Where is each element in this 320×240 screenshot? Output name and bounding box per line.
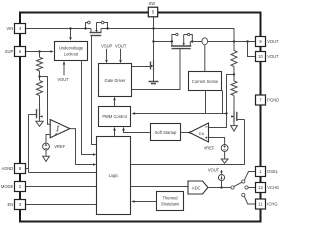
ground symbol below VREF (left) xyxy=(43,156,50,161)
wire R4 to transistor Q2 drain xyxy=(233,96,235,112)
wire SW node rail to sense FET xyxy=(154,41,172,43)
resistor R3 (VOUT divider top) xyxy=(231,51,237,67)
svg-text:VCHG: VCHG xyxy=(267,185,279,190)
node junction FB tap xyxy=(233,73,235,75)
svg-text:Current Sense: Current Sense xyxy=(192,79,219,84)
wire Soft Startup to PWM Control xyxy=(124,130,151,132)
block Current Sense xyxy=(189,72,222,91)
wire M2 source to power ground xyxy=(153,71,155,82)
wire Thermal Shutdown to Logic xyxy=(135,201,157,203)
wire R3 to R4 with FB tap xyxy=(233,67,235,82)
EA minus sign xyxy=(205,126,208,128)
current source I1 circle xyxy=(218,174,224,180)
wire Logic to Q2 gate xyxy=(131,120,245,165)
wire VOUT label arrow into UVLO bottom xyxy=(63,64,65,75)
pin 11 ICHG xyxy=(256,199,266,209)
svg-text:VIN: VIN xyxy=(6,26,13,31)
wire current sensor to Current Sense block xyxy=(204,45,206,72)
switch common contact circle xyxy=(231,186,234,189)
comparator U2 plus sign xyxy=(55,133,58,136)
wire comparator output to Logic xyxy=(70,129,93,165)
transistor Q1 bulk arrow xyxy=(40,115,43,117)
wire Logic to PWM Control xyxy=(114,130,116,136)
comparator U2 hysteresis glyph xyxy=(56,126,59,131)
wire AGND rail into Logic xyxy=(29,172,97,174)
transistor M1 gate bar xyxy=(90,35,101,37)
current source I1 arrow xyxy=(221,175,223,178)
wire ICHG contact to pin 11 xyxy=(244,196,255,204)
node junction M3 left xyxy=(171,40,173,42)
switch DSEL contact circle xyxy=(242,180,245,183)
pin 4 VIN xyxy=(15,24,26,34)
pin 12 VCHG xyxy=(256,183,266,193)
resistor R1 (SUP divider top) xyxy=(37,57,43,71)
wire rail M3 drain to current sensor xyxy=(190,41,202,43)
wire Q1 source to ground xyxy=(39,120,41,122)
svg-text:Gate Driver: Gate Driver xyxy=(105,78,127,83)
transistor Q2 bulk arrow xyxy=(231,115,234,117)
svg-text:10: 10 xyxy=(258,54,263,59)
wire AGND pin to rail xyxy=(26,168,29,170)
svg-text:Shutdown: Shutdown xyxy=(161,202,180,207)
svg-text:PWM Control: PWM Control xyxy=(102,114,126,119)
transistor M3 bulk arrow xyxy=(183,43,185,46)
svg-text:VREF: VREF xyxy=(204,146,215,151)
voltage source VREF (EA reference) xyxy=(221,145,228,152)
transistor M2 (low-side NMOS) channel xyxy=(153,60,155,71)
wire FB tap to EA inverting input xyxy=(209,75,235,128)
power ground symbol below M2 xyxy=(149,81,159,83)
svg-text:SW: SW xyxy=(148,1,155,6)
node junction M1 right curl xyxy=(106,27,108,29)
ground symbol below Q1 xyxy=(36,121,43,126)
svg-text:DSEL: DSEL xyxy=(267,169,278,174)
wire VREF to ground (EA) xyxy=(224,151,226,159)
wire VREF to ground xyxy=(45,150,47,156)
block Soft Startup xyxy=(151,124,181,141)
svg-text:VOUT: VOUT xyxy=(57,77,69,82)
arrowhead into UVLO left xyxy=(50,50,53,53)
svg-text:SUP: SUP xyxy=(5,49,14,54)
wire MODE pin to Logic xyxy=(26,186,97,188)
wire M1 gate down to Logic xyxy=(92,36,97,145)
svg-text:VOUT: VOUT xyxy=(208,167,220,172)
wire VCHG contact to pin 12 xyxy=(248,187,255,189)
wire M3 gate down to Gate Driver xyxy=(132,49,181,90)
svg-text:PGND: PGND xyxy=(267,98,279,103)
node junction SUP/divider xyxy=(38,50,40,52)
svg-text:VOUT: VOUT xyxy=(267,54,279,59)
svg-text:Lockout: Lockout xyxy=(64,52,79,57)
svg-text:Undervoltage: Undervoltage xyxy=(59,46,84,51)
arrowhead into UVLO top xyxy=(69,37,72,40)
wire Current Sense to EA node xyxy=(206,91,227,114)
ADC block pentagon xyxy=(188,181,208,194)
svg-text:Thermal: Thermal xyxy=(162,196,177,201)
node junction M3 right curl xyxy=(191,40,193,42)
error amplifier EA triangle xyxy=(190,123,209,142)
transistor M3 (sense PMOS) source drop xyxy=(172,35,176,47)
arrowhead EA output xyxy=(187,131,191,134)
svg-text:ADC: ADC xyxy=(192,185,201,190)
wire R2 bottom to Q1 drain xyxy=(39,96,41,108)
pin 2 MODE xyxy=(15,182,26,192)
wire SUP from pin 6 to UVLO left xyxy=(26,51,51,53)
wire M1 left gate curl xyxy=(86,23,88,29)
wire M3 bulk top bracket xyxy=(184,34,188,36)
node junction VIN/UVLO xyxy=(69,27,71,29)
node junction CS/FB xyxy=(225,112,227,114)
svg-text:VSUP: VSUP xyxy=(101,44,112,49)
transistor M1 (input pass PMOS) source drop xyxy=(90,29,92,33)
wire Current Sense to PWM Control xyxy=(135,91,223,114)
wire EN pin to Logic xyxy=(26,204,97,206)
EA plus sign xyxy=(205,136,208,139)
pin 6 SUP xyxy=(15,47,26,57)
wire EA output to Soft Startup xyxy=(181,132,190,134)
wire PWM Control to Gate Driver xyxy=(114,100,116,106)
wire tap to comparator inverting input xyxy=(40,77,51,125)
wire Gate Driver to M2 gate xyxy=(132,66,151,68)
wire DSEL contact to pin 1 xyxy=(244,172,255,181)
block Thermal Shutdown xyxy=(157,192,184,211)
pin stem SW down to M2 drain xyxy=(153,17,155,60)
node junction M1 left curl xyxy=(84,27,86,29)
transistor Q1 gate lead xyxy=(29,114,37,116)
transistor M1 channel bar xyxy=(90,32,102,34)
transistor M2 gate bar xyxy=(150,61,152,69)
wire VOUT into Gate Driver xyxy=(120,49,122,60)
node junction pin10 branch xyxy=(246,40,248,42)
svg-text:MODE: MODE xyxy=(1,184,14,189)
ground symbol below EA VREF xyxy=(221,159,228,163)
transistor M3 gate bar xyxy=(172,48,191,50)
arrowhead UVLO output into Logic xyxy=(93,153,96,156)
wire VSUP into Gate Driver xyxy=(106,49,108,60)
transistor M1 bulk lead xyxy=(96,23,98,32)
transistor Q1 gate bar xyxy=(36,109,38,118)
wire Q1 gate down to AGND rail xyxy=(28,115,30,173)
contact circle M1 right xyxy=(101,21,104,24)
wire M1 bulk top bracket xyxy=(97,22,102,24)
IC boundary border xyxy=(20,13,261,222)
wire EA plus input to VREF xyxy=(209,138,225,145)
current sensor circle xyxy=(202,38,208,45)
voltage source VREF (comparator reference) xyxy=(43,143,50,150)
contact circle M1 left xyxy=(88,21,91,24)
svg-text:EA: EA xyxy=(199,132,205,136)
wire VIN rail right segment xyxy=(101,29,234,42)
block Logic xyxy=(97,137,131,215)
switch blade xyxy=(234,182,242,186)
pin 1 DSEL xyxy=(256,167,266,177)
ground symbol below Q2 xyxy=(231,126,238,131)
wire comparator plus input to VREF xyxy=(46,135,50,144)
block Undervoltage Lockout xyxy=(55,42,88,61)
wire M3 right curl to rail xyxy=(190,35,192,42)
arrowhead into Logic right xyxy=(131,200,135,203)
transistor Q1 (left NMOS) channel xyxy=(39,108,41,120)
wire Q2 source to ground xyxy=(233,122,235,126)
wire rail from sensor to VOUT pin 9 xyxy=(208,41,256,43)
contact circle M3 right xyxy=(188,33,190,35)
pin 3 EN xyxy=(15,200,26,210)
pin 9 VOUT xyxy=(256,37,266,47)
transistor M2 bulk arrow xyxy=(151,65,154,67)
wire Q2 gate lead xyxy=(237,119,245,121)
svg-text:VREF: VREF xyxy=(54,144,65,149)
transistor M3 channel bar xyxy=(171,45,191,47)
node divider tap junction xyxy=(38,75,40,77)
contact circle M3 left xyxy=(176,33,178,35)
wire branch VIN to UVLO top xyxy=(70,29,72,38)
pin 5 SW xyxy=(148,7,157,17)
arrowhead into PWM Control right xyxy=(132,112,136,115)
wire M1 right curl to rail xyxy=(104,23,107,29)
svg-text:11: 11 xyxy=(258,202,263,207)
svg-text:Logic: Logic xyxy=(109,173,119,178)
wire ADC output to switch common xyxy=(208,187,231,189)
wire VIN rail from pin 4 xyxy=(26,28,92,30)
wire R1 bottom to tap xyxy=(39,71,41,80)
transistor M3 drain drop xyxy=(189,42,191,47)
node junction current source / ADC line xyxy=(220,186,222,188)
svg-text:12: 12 xyxy=(258,185,263,190)
transistor Q2 gate bar xyxy=(236,112,238,121)
pin 10 VOUT xyxy=(256,52,266,62)
wire branch to VOUT pin 10 xyxy=(248,42,256,57)
wire SUP junction down to R1 xyxy=(39,52,41,58)
svg-text:VOUT: VOUT xyxy=(267,39,279,44)
switch VCHG contact circle xyxy=(245,186,248,189)
resistor R2 (SUP divider bottom) xyxy=(37,81,43,96)
resistor R4 (VOUT divider bottom) xyxy=(231,81,237,96)
block Gate Driver xyxy=(99,64,132,97)
svg-text:VOUT: VOUT xyxy=(115,44,127,49)
pin 8 AGND xyxy=(15,164,26,174)
transistor M1 drain drop xyxy=(100,29,102,33)
block PWM Control xyxy=(99,107,131,127)
svg-text:ICHG: ICHG xyxy=(267,202,277,207)
switch ICHG contact circle xyxy=(242,193,245,196)
transistor M1 bulk arrow xyxy=(95,30,97,33)
svg-text:Soft Startup: Soft Startup xyxy=(155,130,177,135)
transistor Q2 (discharge NMOS) channel xyxy=(233,111,235,122)
svg-text:EN: EN xyxy=(8,202,14,207)
node junction rail corner xyxy=(233,40,235,42)
transistor M3 bulk lead xyxy=(183,35,185,45)
wire rail to resistor R3 xyxy=(233,42,235,51)
wire VOUT stub into current source xyxy=(221,170,223,172)
wire current source to ADC line xyxy=(221,181,223,188)
arrowhead comparator output into Logic xyxy=(93,163,96,166)
comparator U2 triangle xyxy=(50,120,70,138)
wire Logic to ADC xyxy=(131,186,189,188)
pin 7 PGND xyxy=(256,95,266,105)
svg-text:AGND: AGND xyxy=(1,166,13,171)
wire UVLO output down to Logic xyxy=(82,61,93,155)
